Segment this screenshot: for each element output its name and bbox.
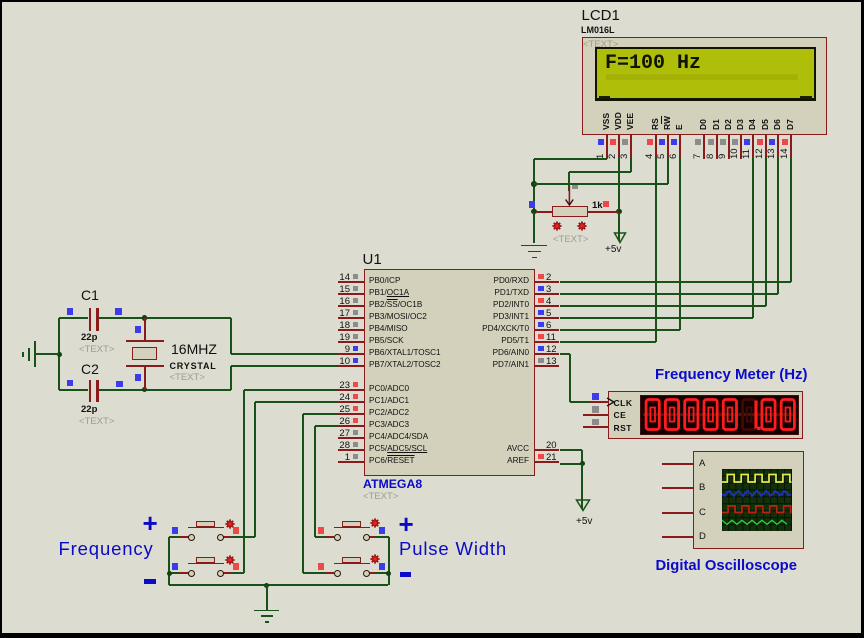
counter display background: [640, 395, 799, 435]
U1 pin 27 state square: [353, 430, 359, 436]
wire RW down: [667, 158, 669, 184]
LCD screen green area: [597, 49, 814, 98]
U1 pin label PC1/ADC1: [369, 396, 409, 405]
push button pw-down knob: [370, 554, 380, 564]
U1 pin 24 state square: [353, 394, 359, 400]
ground symbol bottom: [254, 610, 279, 612]
label + frequency: [143, 508, 158, 539]
wire PC3 horizontal: [315, 425, 338, 427]
push button pw-down right lead: [369, 572, 378, 574]
counter label CE: [614, 410, 627, 420]
gray square RST: [592, 419, 599, 426]
U1 pin 23 stub: [338, 389, 364, 391]
pot left stub: [536, 211, 552, 213]
U1 placeholder text: [363, 491, 398, 502]
C2 placeholder text: [79, 416, 114, 427]
label - frequency: [144, 579, 156, 585]
U1 pin 6 state square: [538, 322, 544, 328]
counter CLK chevron: [606, 397, 616, 407]
label 16MHZ: [171, 341, 217, 357]
label U1: [363, 251, 382, 268]
U1 pin 1 state square: [353, 454, 359, 460]
crystal top plate: [126, 340, 164, 342]
scope channel B stub: [662, 487, 693, 489]
7seg digit 3 (0): [685, 400, 698, 430]
pot wiper arrow: [563, 185, 577, 207]
label Pulse Width: [399, 538, 507, 560]
wire crystal bottom left: [59, 389, 88, 391]
LCD pin 14 stub: [790, 135, 792, 160]
wire XTAL1 riser: [230, 318, 232, 354]
counter label CLK: [614, 398, 633, 408]
label ATMEGA8: [363, 477, 422, 491]
potentiometer 1k body: [552, 206, 589, 217]
+5v label (avcc): [576, 516, 592, 527]
wire PC1 vertical: [254, 402, 256, 537]
7seg digit 4 (0): [704, 400, 717, 430]
junction right bus: [386, 571, 392, 577]
U1 pin number 6: [546, 320, 551, 331]
U1 pin number 15: [330, 284, 350, 295]
U1 pin 17 stub: [338, 317, 364, 319]
wire freq-down right to PC0: [232, 572, 244, 574]
U1 pin 18 stub: [338, 329, 364, 331]
LCD pin 7 stub: [703, 135, 705, 160]
pot adjust knob 1: [552, 221, 562, 231]
LCD pin label D0: [698, 119, 708, 130]
push button freq-up right lead: [223, 536, 232, 538]
U1 pin label PB1/OC1A: [369, 288, 409, 297]
waveform channel C red square: [722, 506, 792, 513]
wire AVCC down: [581, 450, 583, 464]
U1 pin 3 state square: [538, 286, 544, 292]
push button freq-down left lead: [180, 572, 189, 574]
wire D5 vertical: [765, 158, 767, 306]
wire pw-down right: [375, 572, 389, 574]
counter unlit middle band: [643, 413, 796, 417]
wire VSS to ground node: [534, 158, 607, 160]
LCD pin label D3: [735, 119, 745, 130]
LCD pin number 1: [595, 153, 606, 158]
wire left button bus: [168, 537, 170, 585]
LCD pin 5 state square: [659, 139, 665, 145]
pot adjust knob 2: [577, 221, 587, 231]
label CRYSTAL: [170, 361, 217, 371]
U1 pin label PD6/AIN0: [444, 348, 529, 357]
U1 pin 25 state square: [353, 406, 359, 412]
crystal bottom plate: [126, 365, 164, 367]
LCD pin number 13: [766, 148, 777, 159]
U1 pin 27 stub: [338, 437, 364, 439]
U1 pin 28 stub: [338, 449, 364, 451]
push button pw-down squares: [318, 563, 325, 570]
capacitor C2 plates: [89, 380, 92, 403]
wire freq-down left: [169, 572, 180, 574]
LCD pin 11 stub: [752, 135, 754, 160]
LCD pin number 10: [729, 148, 740, 159]
U1 pin 4 state square: [538, 298, 544, 304]
wire VEE down: [630, 158, 632, 172]
U1 pin 15 state square: [353, 286, 359, 292]
wire D6 vertical: [777, 158, 779, 294]
wire crystal top left: [59, 317, 88, 319]
LCD second row ghost: [606, 74, 798, 81]
push button pw-down terminals: [334, 570, 341, 577]
wire AVCC: [560, 449, 583, 451]
U1 pin 16 stub: [338, 305, 364, 307]
ground symbol below pot: [521, 245, 547, 247]
wire PD4 to LCD E: [560, 329, 681, 331]
wire PD0 to LCD D7: [560, 281, 792, 283]
7seg digit 5 (0): [723, 400, 736, 430]
U1 pin 5 state square: [538, 310, 544, 316]
U1 pin 19 stub: [338, 341, 364, 343]
U1 pin 3 stub: [535, 293, 560, 295]
U1 pin label PB5/SCK: [369, 336, 404, 345]
wire RS vertical: [655, 158, 657, 342]
wire crystal top right: [99, 317, 231, 319]
U1 pin label PB7/XTAL2/TOSC2: [369, 360, 441, 369]
U1 pin 17 state square: [353, 310, 359, 316]
U1 pin number 27: [330, 428, 350, 439]
U1 pin 13 stub: [535, 365, 560, 367]
U1 pin number 3: [546, 284, 551, 295]
push button pw-down left lead: [325, 572, 334, 574]
U1 pin label PB3/MOSI/OC2: [369, 312, 427, 321]
junction RW-ground: [531, 181, 537, 187]
LCD pin number 3: [619, 153, 630, 158]
U1 pin label PD3/INT1: [444, 312, 529, 321]
blue square C1 left: [67, 308, 74, 315]
LCD pin number 7: [692, 153, 703, 158]
ground symbol left (rotated): [34, 341, 36, 367]
wire VEE to pot wiper: [568, 172, 570, 191]
gray square CE: [592, 406, 599, 413]
U1 pin 5 stub: [535, 317, 560, 319]
U1 pin label PC6/<span class="ov">RESET</span>: [369, 456, 415, 465]
LCD pin 2 state square: [610, 139, 616, 145]
U1 pin number 25: [330, 404, 350, 415]
scope channel label D: [699, 531, 706, 542]
LCD pin 8 state square: [708, 139, 714, 145]
ground tap vertical: [266, 585, 268, 610]
U1 pin 19 state square: [353, 334, 359, 340]
LCD pin label E: [674, 124, 684, 130]
U1 pin 2 stub: [535, 281, 560, 283]
7seg digit 7 (0): [762, 400, 775, 430]
junction crystal bottom: [142, 387, 148, 393]
U1 pin number 14: [330, 272, 350, 283]
red square after 1k: [603, 201, 610, 208]
wire crystal bottom right: [99, 389, 231, 391]
wire PD2 to LCD D5: [560, 305, 767, 307]
U1 pin number 17: [330, 308, 350, 319]
U1 pin label PC2/ADC2: [369, 408, 409, 417]
wire PD5 to LCD RS: [560, 341, 657, 343]
LCD pin label D2: [723, 119, 733, 130]
U1 pin number 20: [546, 440, 557, 451]
LCD pin 4 stub: [655, 135, 657, 160]
LCD pin label D1: [711, 119, 721, 130]
U1 pin 24 stub: [338, 401, 364, 403]
wire PC0 vertical: [243, 390, 245, 573]
U1 pin 9 state square: [353, 346, 359, 352]
LCD cursor mark right: [800, 96, 812, 99]
U1 pin number 24: [330, 392, 350, 403]
wire pw-up left to PC3: [315, 536, 326, 538]
junction AVCC-AREF: [580, 461, 586, 467]
push button freq-up left lead: [180, 536, 189, 538]
wire to +5v pot: [618, 212, 620, 242]
C1 value 22p: [81, 332, 97, 343]
push button freq-down terminals: [188, 570, 195, 577]
U1 pin number 18: [330, 320, 350, 331]
oscilloscope screen: [722, 469, 792, 531]
push button pw-up actuator: [334, 527, 370, 529]
wire PD1 to LCD D6: [560, 293, 779, 295]
U1 pin number 5: [546, 308, 551, 319]
U1 pin label PD2/INT0: [444, 300, 529, 309]
U1 pin 23 state square: [353, 382, 359, 388]
pot value 1k: [592, 200, 603, 211]
push button pw-up terminals: [334, 534, 341, 541]
LCD pin 3 state square: [622, 139, 628, 145]
title Frequency Meter (Hz): [655, 366, 808, 383]
pot right stub: [588, 211, 619, 213]
wire E vertical: [679, 158, 681, 330]
LCD pin 1 state square: [598, 139, 604, 145]
LCD pin number 11: [741, 149, 752, 159]
frequency counter body: [608, 391, 803, 439]
wire pw-down left to PC2: [303, 572, 326, 574]
push button pw-up right lead: [369, 536, 378, 538]
U1 pin label PD5/T1: [444, 336, 529, 345]
crystal placeholder text: [170, 372, 205, 383]
title Digital Oscilloscope: [656, 558, 797, 574]
U1 pin 4 stub: [535, 305, 560, 307]
wire RW to ground node: [534, 183, 668, 185]
pot placeholder text: [553, 234, 588, 245]
U1 pin number 12: [546, 344, 557, 355]
LCD pin 12 stub: [765, 135, 767, 160]
push button freq-down actuator: [188, 563, 224, 565]
U1 pin 14 state square: [353, 274, 359, 280]
LCD pin 4 state square: [647, 139, 653, 145]
U1 pin label PB4/MISO: [369, 324, 408, 333]
U1 pin 6 stub: [535, 329, 560, 331]
U1 pin 28 state square: [353, 442, 359, 448]
wire to gnd symbol: [35, 353, 60, 355]
wire AREF: [560, 463, 583, 465]
+5v power symbol (avcc): [575, 499, 591, 512]
LCD pin 10 stub: [740, 135, 742, 160]
wire PD6 vertical: [569, 354, 571, 402]
U1 pin 26 state square: [353, 418, 359, 424]
counter label RST: [614, 423, 633, 433]
push button freq-down right lead: [223, 572, 232, 574]
LCD pin label R[span class="ov"]W[/span]: [662, 116, 672, 130]
ground bus: [169, 584, 388, 586]
wire XTAL2 to pin10: [231, 365, 338, 367]
junction crystal gnd: [57, 352, 63, 358]
U1 pin label AVCC: [444, 444, 529, 453]
U1 pin 25 stub: [338, 413, 364, 415]
LCD pin 13 state square: [769, 139, 775, 145]
wire VDD vertical: [618, 158, 620, 212]
blue square C2 left: [67, 380, 74, 387]
LCD text F=100 Hz: [605, 52, 701, 75]
gray state square on wiper wire: [572, 183, 578, 189]
LCD pin label VDD: [613, 112, 623, 130]
7seg digit 8 (0): [781, 400, 794, 430]
blue square CLK: [592, 393, 599, 400]
LCD pin label D7: [785, 119, 795, 130]
push button freq-up knob: [225, 519, 235, 529]
wire PC2 vertical: [302, 414, 304, 573]
wire XTAL2 dropper: [230, 366, 232, 390]
LCD pin number 14: [779, 148, 790, 159]
scope channel C stub: [662, 512, 693, 514]
LCD pin 6 stub: [679, 135, 681, 160]
push button freq-down squares: [172, 563, 178, 570]
LCD cursor mark left: [599, 96, 610, 99]
counter CE stub: [583, 414, 608, 416]
wire pw-up right: [375, 536, 389, 538]
crystal XT body: [132, 347, 157, 360]
push button freq-up terminals: [188, 534, 195, 541]
wire to +5v (aref): [581, 464, 583, 510]
LCD pin number 9: [717, 153, 728, 158]
wire PD6 to meter horizontal: [560, 353, 571, 355]
LCD pin 10 state square: [732, 139, 738, 145]
push button freq-down knob: [225, 555, 235, 565]
wire PC2 horizontal: [303, 413, 338, 415]
wire left vertical: [58, 318, 60, 390]
U1 pin 12 stub: [535, 353, 560, 355]
LCD pin number 2: [607, 153, 618, 158]
LCD pin label VEE: [625, 113, 635, 130]
push button pw-down actuator: [334, 563, 370, 565]
counter CLK stub: [590, 401, 608, 403]
U1 pin 18 state square: [353, 322, 359, 328]
wire PD6 to CLK: [570, 401, 590, 403]
LCD screen bezel: [595, 47, 816, 101]
LCD pin 2 stub: [618, 135, 620, 160]
U1 pin label AREF: [444, 456, 529, 465]
waveform channel A yellow square: [722, 475, 792, 483]
junction left bus: [167, 571, 173, 577]
U1 pin 11 stub: [535, 341, 560, 343]
waveform channel D green zigzag: [722, 520, 787, 524]
U1 pin label PC0/ADC0: [369, 384, 409, 393]
wire VSS vertical: [533, 159, 535, 212]
waveform channel B blue sine: [722, 491, 791, 497]
7seg digit 1 (0): [646, 400, 659, 430]
U1 pin 10 stub: [338, 365, 364, 367]
LCD pin number 6: [668, 153, 679, 158]
7seg digit 6 (shows 1, ghost 8): [743, 400, 756, 430]
U1 pin label PB0/ICP: [369, 276, 400, 285]
U1 pin 15 stub: [338, 293, 364, 295]
wire VEE horizontal: [569, 171, 631, 173]
blue square C2 right: [116, 381, 123, 388]
wire D7 vertical: [790, 158, 792, 282]
crystal bottom lead: [144, 366, 146, 390]
U1 pin label PB6/XTAL1/TOSC1: [369, 348, 441, 357]
label - pulsewidth: [400, 572, 411, 578]
push button pw-up knob: [370, 518, 380, 528]
U1 pin number 28: [330, 440, 350, 451]
U1 pin number 19: [330, 332, 350, 343]
7seg digit 2 (0): [665, 400, 678, 430]
label + pulsewidth: [399, 509, 414, 540]
wire XTAL1 to pin9: [231, 353, 338, 355]
+5v power symbol (pot): [613, 232, 627, 244]
U1 pin 20 stub: [535, 449, 560, 451]
wire freq-up right to PC1: [232, 536, 255, 538]
push button freq-up squares: [172, 527, 178, 534]
LCD pin 12 state square: [757, 139, 763, 145]
label Frequency: [59, 538, 154, 560]
push button pw-up squares: [318, 527, 325, 534]
junction pot right +5v: [616, 209, 622, 215]
U1 pin 21 stub: [535, 461, 560, 463]
LCD LM016L body: [582, 37, 827, 135]
crystal top lead: [144, 318, 146, 341]
LCD pin label D6: [772, 119, 782, 130]
U1 pin 9 stub: [338, 353, 364, 355]
junction crystal top: [142, 315, 148, 321]
U1 pin 16 state square: [353, 298, 359, 304]
U1 pin number 9: [330, 344, 350, 355]
LCD pin 7 state square: [695, 139, 701, 145]
scope channel A stub: [662, 463, 693, 465]
U1 pin 13 state square: [538, 358, 544, 364]
LCD pin 3 stub: [630, 135, 632, 160]
C2 value 22p: [81, 404, 97, 415]
wire pot-left to ground: [533, 212, 535, 244]
LCD pin label D5: [760, 119, 770, 130]
LCD pin 8 stub: [716, 135, 718, 160]
U1 pin 2 state square: [538, 274, 544, 280]
LCD pin 9 stub: [728, 135, 730, 160]
LCD pin 11 state square: [744, 139, 750, 145]
LCD pin 5 stub: [667, 135, 669, 160]
counter RST stub: [583, 426, 608, 428]
U1 pin number 1: [330, 452, 350, 463]
wire PC0 horizontal: [244, 389, 339, 391]
U1 pin 14 stub: [338, 281, 364, 283]
LCD pin 6 state square: [671, 139, 677, 145]
scope channel label A: [699, 458, 705, 469]
U1 pin label PD0/RXD: [444, 276, 529, 285]
capacitor C1 plates: [89, 308, 92, 331]
LCD pin 9 state square: [720, 139, 726, 145]
LCD pin 13 stub: [777, 135, 779, 160]
LCD pin number 5: [656, 153, 667, 158]
wire PC3 vertical: [314, 426, 316, 537]
LCD pin label D4: [747, 119, 757, 130]
wire freq-up left: [169, 536, 180, 538]
LCD pin number 4: [644, 153, 655, 158]
U1 pin number 2: [546, 272, 551, 283]
oscilloscope body: [693, 451, 804, 549]
push button freq-up actuator: [188, 527, 224, 529]
junction ground tap: [264, 583, 270, 589]
U1 pin 21 state square: [538, 454, 544, 460]
blue state square on VSS wire: [529, 201, 536, 208]
push button pw-up left lead: [325, 536, 334, 538]
